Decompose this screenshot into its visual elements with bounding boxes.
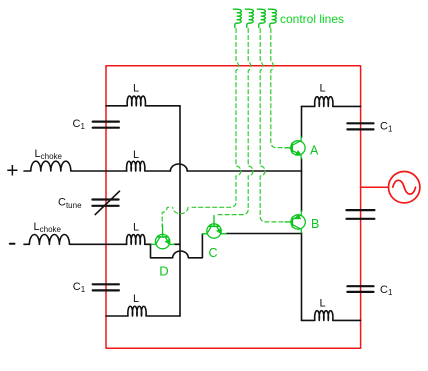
svg-text:Ctune: Ctune [58, 197, 82, 211]
svg-text:L: L [133, 293, 139, 305]
svg-text:D: D [159, 263, 168, 278]
inductor Lchoke minus row [24, 235, 127, 245]
svg-text:L: L [320, 83, 326, 95]
svg-text:Lchoke: Lchoke [35, 148, 63, 161]
control line coil 3 [257, 9, 265, 27]
tank circuit red loop [106, 66, 361, 349]
wire D emitter to center vertical [174, 243, 180, 245]
wire U-link D to C with hop [151, 234, 203, 258]
svg-text:C: C [209, 246, 218, 260]
svg-text:C1: C1 [380, 284, 393, 297]
svg-text:C1: C1 [73, 118, 86, 131]
inductor L plus row [127, 161, 171, 171]
svg-text:C1: C1 [73, 281, 86, 294]
control line coil 2 [245, 9, 253, 27]
transistor A [285, 137, 305, 159]
inductor Lchoke plus row [24, 161, 127, 171]
control dashed line 3 to B [260, 29, 290, 222]
wire plus row to right leg [187, 170, 301, 172]
wire C emitter row to right leg [226, 233, 301, 235]
svg-text:A: A [310, 143, 319, 157]
svg-text:+: + [6, 159, 18, 182]
svg-text:L: L [133, 222, 139, 234]
inductor L bottom-right [302, 311, 361, 321]
capacitor mid-right [347, 210, 375, 219]
wire right leg between A and B [301, 159, 303, 212]
control dashed line 4 to A [271, 29, 290, 148]
wire D base solid [161, 224, 163, 227]
AC source [389, 172, 420, 203]
svg-text:C1: C1 [380, 120, 393, 133]
wire right leg lower [301, 233, 303, 321]
transistor C [203, 216, 227, 239]
capacitor C1 top-left [93, 122, 119, 128]
inductor L bottom-left [106, 306, 180, 316]
svg-text:control lines: control lines [280, 12, 344, 26]
control line coil 1 [233, 9, 241, 27]
wire plus row hop over center vertical [170, 164, 187, 171]
minus terminal [10, 243, 15, 245]
capacitor Ctune [92, 191, 119, 214]
capacitor C1 bottom-left [93, 284, 119, 290]
svg-text:B: B [311, 217, 319, 231]
wire right leg upper [301, 106, 303, 137]
inductor L top-left [106, 96, 180, 106]
svg-text:L: L [133, 149, 139, 161]
wire AC source stub [361, 186, 389, 188]
transistor D [151, 226, 174, 249]
control dashed line 2 to C [216, 29, 254, 215]
capacitor C1 bottom-right [347, 286, 373, 292]
svg-text:L: L [320, 298, 326, 310]
svg-text:L: L [133, 83, 139, 95]
transistor B [285, 211, 305, 233]
inductor L minus row [127, 235, 152, 245]
wire center vertical [179, 106, 181, 316]
svg-text:Lchoke: Lchoke [34, 221, 62, 234]
control dashed line 1 to D [162, 29, 241, 225]
capacitor C1 top-right [347, 123, 373, 129]
control line coil 4 [268, 9, 276, 27]
inductor L top-right [302, 97, 361, 107]
